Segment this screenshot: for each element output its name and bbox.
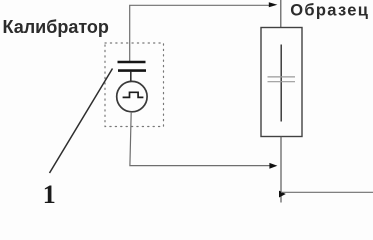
wire bottom: from generator down and right to sample bottom node <box>130 112 270 166</box>
sample capacitor plates (two horizontal lines) <box>268 77 296 82</box>
wire: capacitor bottom plate to generator circle <box>130 72 132 82</box>
svg-text:Калибратор: Калибратор <box>3 17 109 37</box>
svg-text:1: 1 <box>43 180 56 206</box>
wire top: from calibrator capacitor up and right to sample node <box>130 5 270 61</box>
junction arrow at bottom node <box>279 191 286 198</box>
leader line (callout for item 1) <box>50 69 113 174</box>
wire: right vertical from image top edge down to sample box top <box>280 0 282 28</box>
calibrator dash-dot enclosure <box>105 43 164 127</box>
pulse symbol inside generator <box>123 92 144 97</box>
capacitor C (in calibrator): bottom plate <box>118 69 146 72</box>
arrow on bottom wire (points right into sample bottom node) <box>269 163 277 169</box>
arrow on top wire (points right into sample top node) <box>269 2 278 7</box>
sample capacitor electrode (vertical line inside box) <box>280 45 282 122</box>
sample box (Образец outline) <box>261 28 302 137</box>
capacitor C (in calibrator): top plate <box>118 61 146 63</box>
label "Калибратор" <box>3 17 109 37</box>
label "1" <box>43 180 56 209</box>
wire: vertical below sample box to bottom of image <box>280 137 282 203</box>
wire: bottom-right horizontal to image edge <box>281 191 373 193</box>
label "Образец" <box>290 2 369 20</box>
svg-text:Образец: Образец <box>290 2 369 20</box>
pulse generator G (circle) <box>117 81 147 111</box>
